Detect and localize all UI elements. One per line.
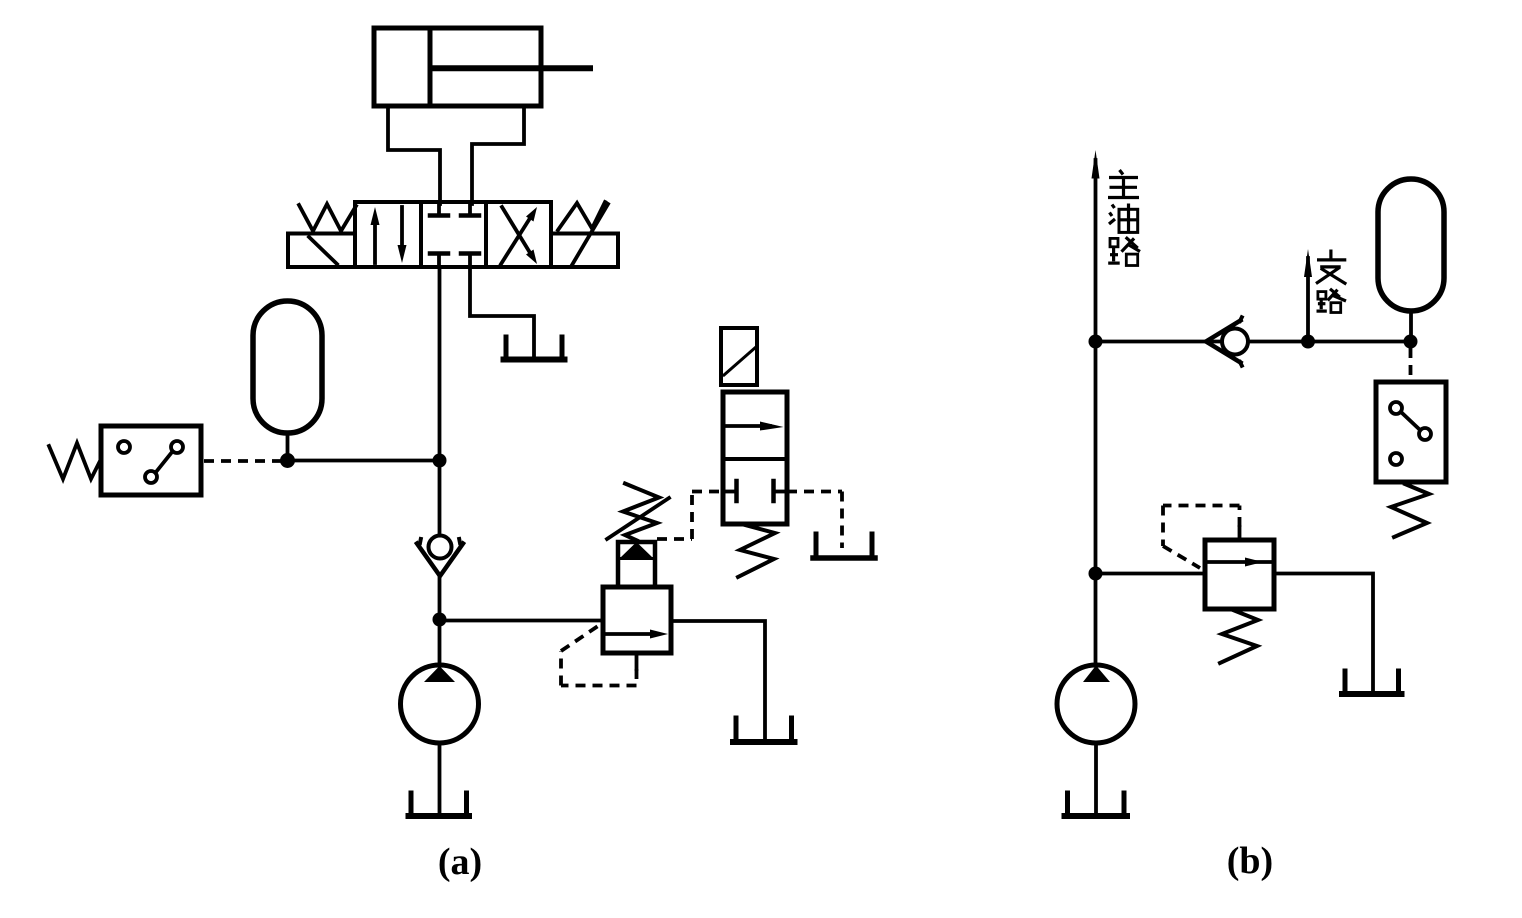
spring pressure switch B [1391,484,1429,537]
wire relief valve outlet to tank [671,621,765,739]
svg-text:(b): (b) [1227,840,1273,882]
text 油 main-oil-line char2 [1109,204,1138,233]
pressure switch B contacts [1390,402,1431,465]
tank solenoid valve drain [813,534,875,558]
text 支 branch char1 [1316,250,1346,285]
pilot line to pressure switch B [1409,348,1413,380]
wire main oil line b [1094,160,1098,664]
wire main pressure line lower [438,574,442,664]
sequence valve top stub [1238,527,1242,540]
wire cylinder left port [388,106,440,204]
spring sequence valve [1220,610,1258,663]
wire accumulator stem [286,433,290,455]
valve left position arrows [371,207,407,263]
solenoid slash left [309,237,337,264]
directional valve 4/3 body [355,202,551,267]
node branch junction b [1301,335,1315,349]
wire accumulator to main line [288,459,440,463]
spring right [558,202,605,230]
pilot line pressure switch A [204,459,282,463]
wire main pressure line upper [438,267,442,536]
wire branch arrow line [1306,258,1310,342]
wire sequence valve outlet to tank [1274,574,1373,691]
spring left [299,204,356,231]
wire branch horizontal b [1096,340,1411,344]
svg-text:(a): (a) [438,841,482,883]
pressure switch B body [1376,382,1446,482]
pressure switch A body [101,426,201,495]
wire valve T-port to tank [470,267,534,358]
solenoid box right [551,234,618,268]
wire accumulator B stem [1409,311,1413,335]
pilot drain loop dashed [561,624,637,686]
relief valve bottom port stub [635,653,639,669]
cylinder rod [431,65,590,71]
solenoid valve closed ports [723,481,787,501]
tank pump A [409,793,470,816]
arrow branch [1304,249,1312,277]
relief valve arrow [604,630,668,639]
text 主 main-oil-line char1 [1108,170,1139,198]
solenoid valve 2/2 solenoid box [721,328,757,385]
relief valve main body [603,587,671,653]
wire junction to relief valve [440,619,604,623]
node lower junction A [433,613,447,627]
tank sequence outlet [1342,671,1402,694]
solenoid slash right [572,204,608,265]
spring relief valve adjustable [607,484,669,541]
spring solenoid valve [738,525,775,577]
text 路 main-oil-line char3 [1108,237,1140,265]
check valve B [1206,317,1248,365]
accumulator B [1378,179,1444,311]
text 路 branch char2 [1317,289,1347,313]
accumulator A [253,301,322,433]
valve centre closed ports [430,202,479,267]
tank under valve [504,337,565,360]
solenoid valve slash [724,347,756,375]
pressure switch A contacts [118,441,183,483]
relief valve pilot poppet [620,542,653,558]
valve right position crossed arrows [501,207,537,264]
pump A [401,665,479,743]
relief valve pilot box [618,542,655,587]
arrow main oil line [1092,150,1100,179]
node main line junction upper [433,454,447,468]
pilot line sequence valve [1163,506,1240,569]
node lower junction b [1089,567,1103,581]
node main junction b [1089,335,1103,349]
pilot line right to tank [787,492,842,549]
spring pressure switch A [49,443,101,479]
cylinder body [374,28,541,106]
node accumulator junction [280,453,295,468]
wire pump B to tank [1094,743,1098,813]
check valve A [417,536,463,577]
sequence valve arrow [1205,558,1274,567]
pump B [1057,665,1135,743]
solenoid valve 2/2 body [723,392,787,524]
cylinder piston [428,28,433,106]
tank pump B [1065,793,1128,816]
sequence valve body [1205,540,1274,609]
solenoid valve open-position arrow [725,422,784,431]
tank relief outlet [733,718,795,742]
wire pump A to tank [438,743,442,813]
node accumulator junction b [1404,335,1418,349]
pilot line relief to solenoid valve [657,492,722,540]
solenoid box left [288,234,355,268]
wire cylinder right port [472,106,524,204]
wire junction to sequence valve [1096,572,1206,576]
